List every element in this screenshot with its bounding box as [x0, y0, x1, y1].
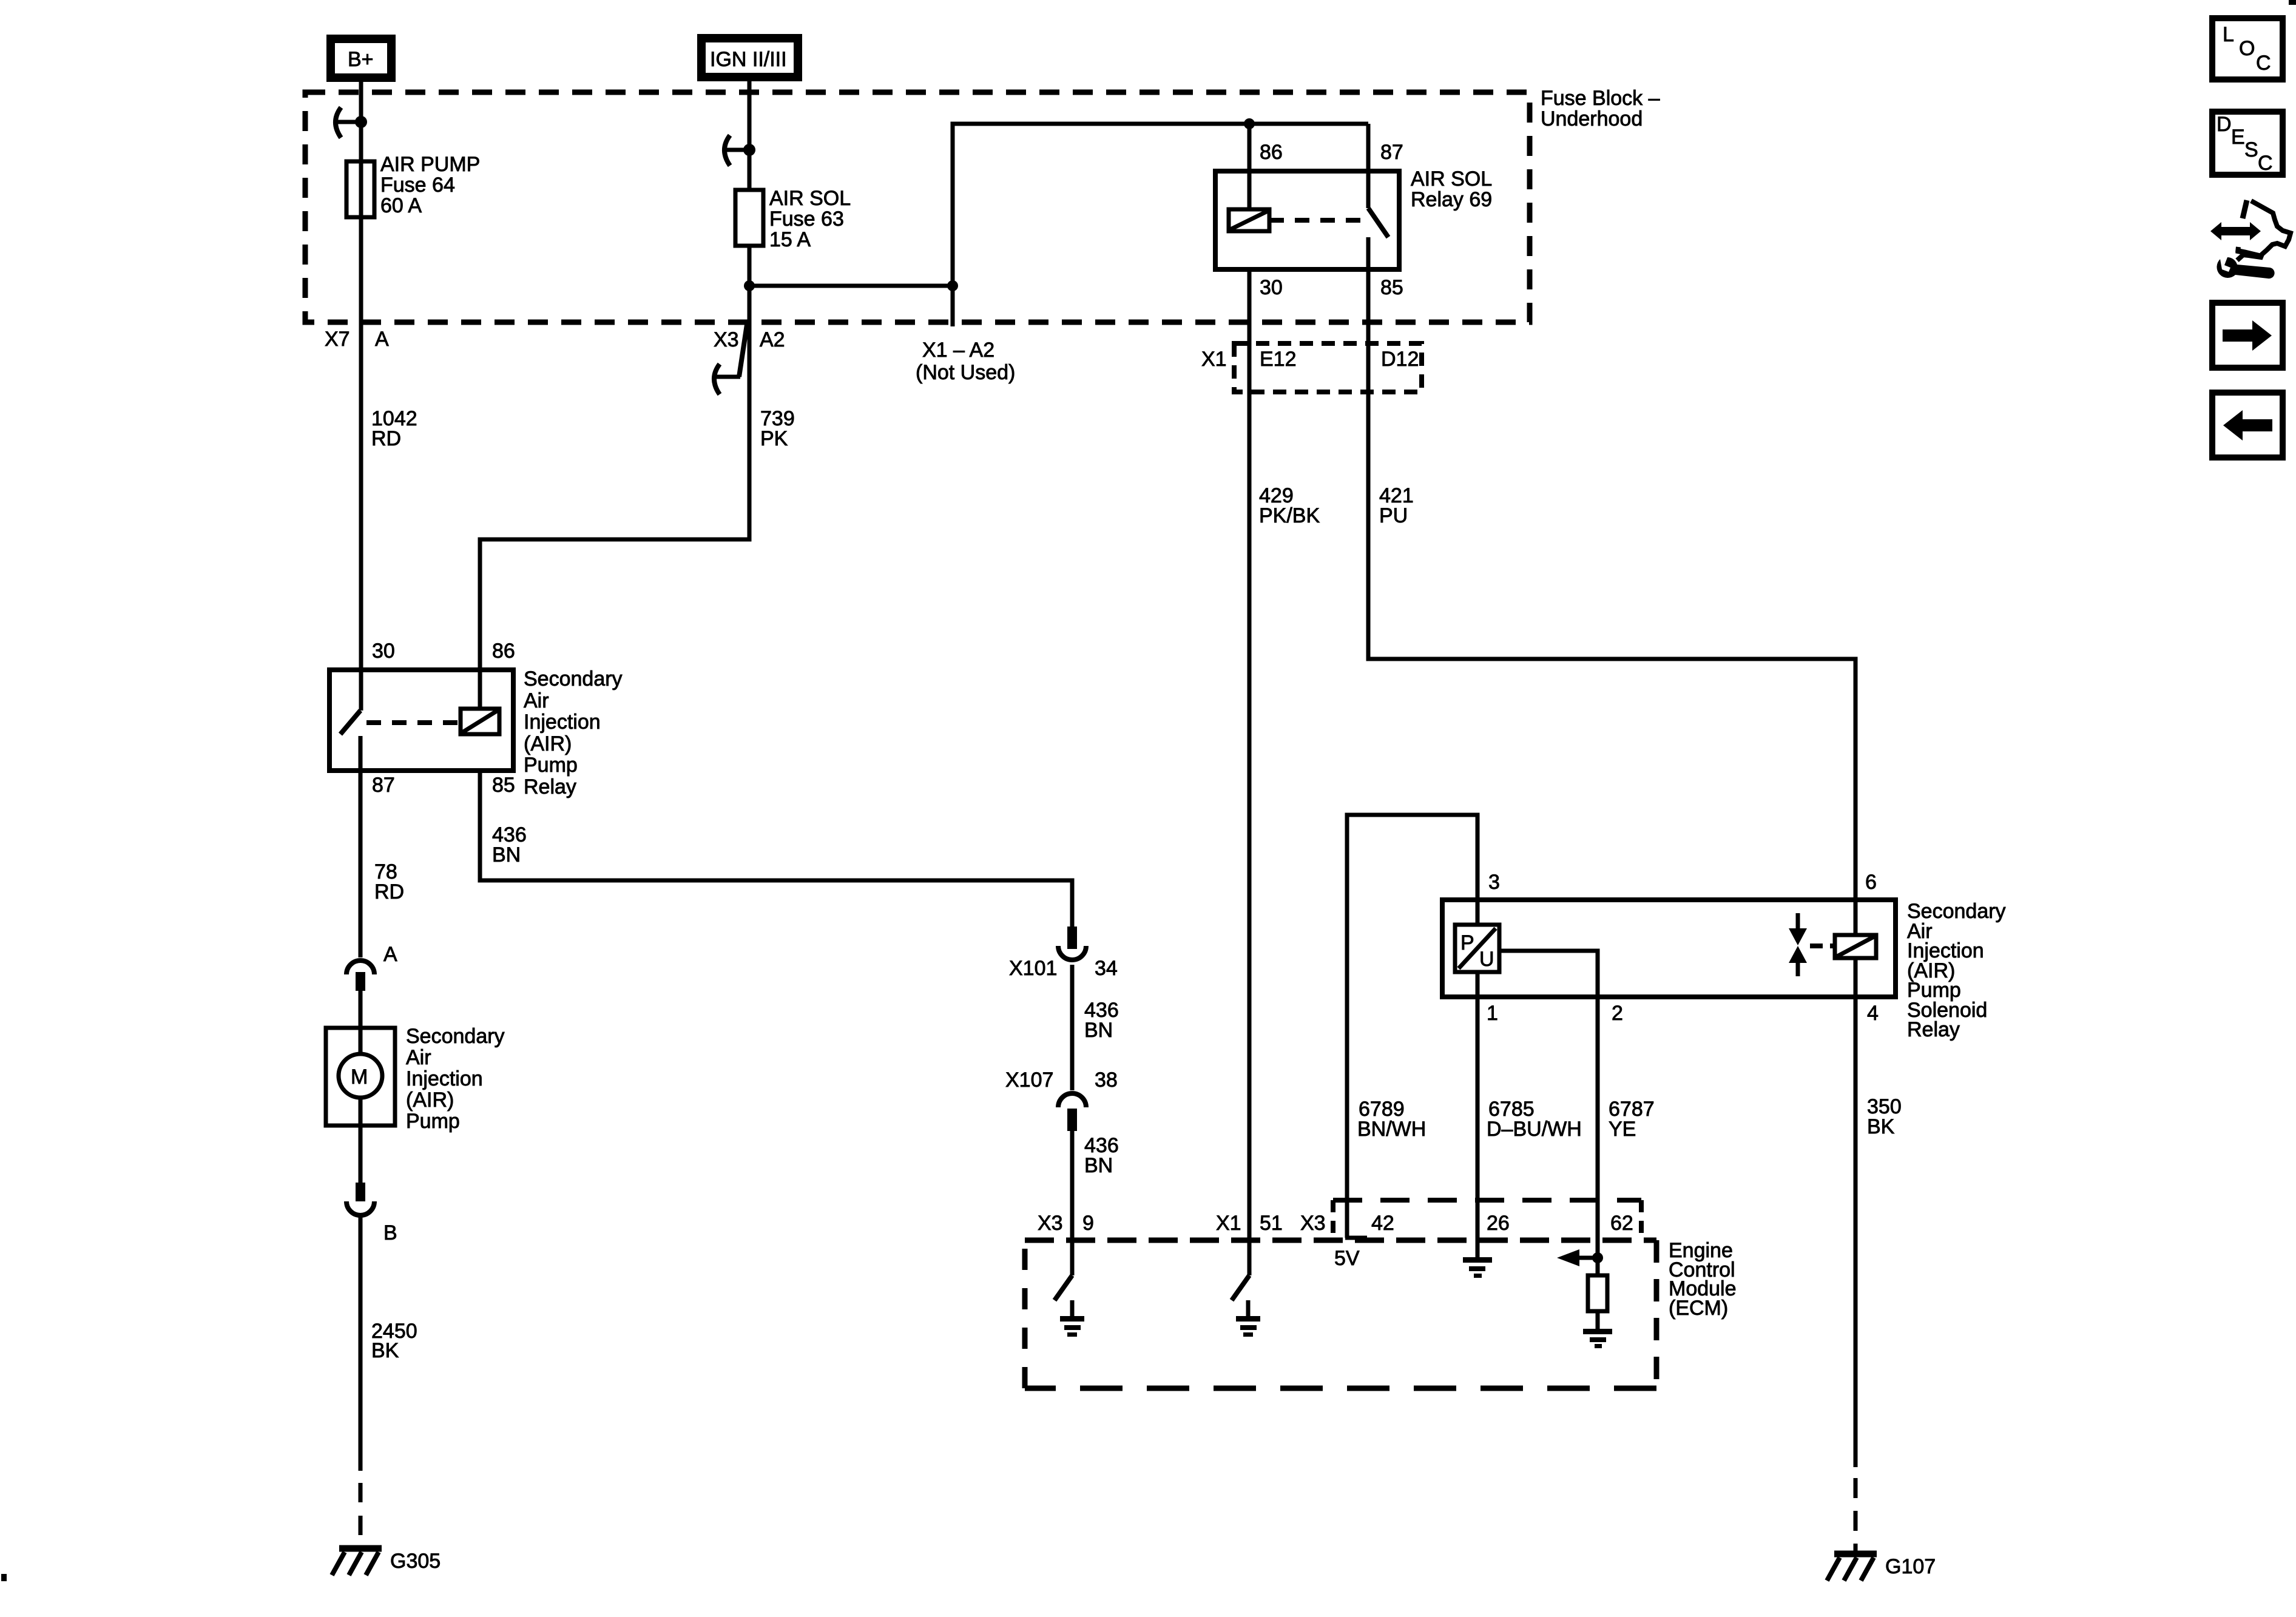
AIR pump relay coil-switch dashed link	[366, 720, 459, 725]
Fuse Block - Underhood dashed box	[305, 92, 1530, 322]
wire label 78 RD	[374, 860, 404, 903]
svg-text:IGN II/III: IGN II/III	[710, 48, 787, 71]
connector labels X3 9	[1038, 1212, 1094, 1235]
svg-text:D12: D12	[1381, 348, 1419, 371]
svg-text:PK: PK	[760, 427, 788, 450]
svg-text:PU: PU	[1379, 504, 1408, 527]
svg-text:60 A: 60 A	[380, 194, 422, 217]
svg-text:X3: X3	[1300, 1212, 1326, 1235]
wire label 6789 BN/WH	[1357, 1098, 1426, 1141]
svg-text:BK: BK	[371, 1339, 399, 1362]
wire A to motor	[359, 991, 363, 1028]
wire 436 BN X101 to X107	[1070, 965, 1075, 1090]
svg-text:Fuse 63: Fuse 63	[769, 208, 844, 231]
svg-text:(AIR): (AIR)	[406, 1089, 454, 1112]
ECM switch to ground at X1/51	[1232, 1275, 1260, 1337]
wire label 1042 RD	[371, 407, 417, 450]
wire label 421 PU	[1379, 484, 1414, 527]
svg-text:Relay: Relay	[1907, 1018, 1960, 1041]
svg-text:X1: X1	[1216, 1212, 1241, 1235]
svg-text:85: 85	[1380, 276, 1403, 299]
stub X1-A2 not used	[951, 286, 955, 326]
svg-text:L: L	[2223, 23, 2234, 46]
svg-text:B+: B+	[348, 48, 374, 71]
svg-text:YE: YE	[1609, 1118, 1636, 1141]
wire 2450 BK to G305	[359, 1217, 363, 1471]
svg-text:X107: X107	[1005, 1068, 1053, 1092]
solenoid relay pin labels 3 6 1 2 4	[1487, 871, 1879, 1025]
svg-text:X1: X1	[1201, 348, 1227, 371]
svg-text:O: O	[2239, 37, 2255, 60]
connector X1 E12 D12 dashed box	[1234, 343, 1422, 392]
fuse F63 AIR SOL Fuse 63 15 A	[735, 187, 851, 251]
svg-text:X3: X3	[1038, 1212, 1063, 1235]
wire B+ to AIR pump relay pin 30	[359, 82, 363, 711]
svg-text:(ECM): (ECM)	[1669, 1297, 1728, 1320]
svg-text:C: C	[2258, 152, 2273, 175]
svg-text:5V: 5V	[1334, 1247, 1360, 1270]
junction below fuse 63	[744, 280, 755, 291]
svg-text:B: B	[383, 1221, 397, 1244]
relay 69 pin 85 contact wire	[1366, 237, 1371, 269]
svg-text:D: D	[2217, 113, 2232, 136]
relay 69 box AIR SOL Relay 69	[1215, 171, 1399, 269]
page tick bottom left	[1, 1574, 7, 1581]
wire 78 RD relay pin 87 to pump connector A	[359, 771, 363, 957]
icon box DESC	[2212, 112, 2283, 175]
labels X1 E12 D12	[1201, 348, 1419, 371]
ECM pin labels X1 51 X3 42 26 62	[1216, 1212, 1633, 1235]
icon box back arrow	[2212, 393, 2283, 457]
wire solenoid relay pin 3 to ECM X3/42 (6789 BN/WH)	[1347, 815, 1477, 1238]
secondary air injection pump solenoid relay box	[1442, 900, 1896, 997]
ECM pull resistor at pin 62	[1588, 1275, 1607, 1329]
wire IGN to fuse 63	[748, 81, 752, 190]
svg-text:Relay: Relay	[524, 775, 576, 798]
svg-text:87: 87	[372, 774, 395, 797]
svg-text:BK: BK	[1867, 1115, 1895, 1138]
svg-text:3: 3	[1488, 871, 1500, 894]
svg-text:A: A	[375, 328, 389, 351]
ECM switch to ground at X3/9	[1055, 1275, 1084, 1337]
svg-text:9: 9	[1082, 1212, 1094, 1235]
ECM internal ground at pin 26	[1463, 1243, 1492, 1278]
wire motor to connector B	[359, 1126, 363, 1183]
svg-text:X7: X7	[325, 328, 350, 351]
label Fuse Block - Underhood	[1541, 87, 1660, 130]
svg-text:Injection: Injection	[524, 711, 601, 734]
label Secondary Air Injection (AIR) Pump	[406, 1025, 505, 1133]
svg-text:34: 34	[1095, 957, 1118, 980]
svg-text:BN: BN	[492, 843, 521, 866]
svg-text:G305: G305	[390, 1550, 441, 1573]
svg-text:15 A: 15 A	[769, 228, 811, 251]
svg-text:42: 42	[1371, 1212, 1394, 1235]
svg-text:Secondary: Secondary	[406, 1025, 505, 1048]
svg-text:M: M	[351, 1065, 368, 1089]
wire relay 69 pin 86 coil	[1248, 124, 1252, 209]
svg-text:P: P	[1460, 931, 1474, 954]
tap clip on B+ wire	[336, 107, 367, 138]
svg-text:PK/BK: PK/BK	[1259, 504, 1320, 527]
svg-text:BN: BN	[1084, 1154, 1113, 1177]
svg-text:AIR SOL: AIR SOL	[1411, 167, 1492, 191]
svg-text:RD: RD	[374, 880, 404, 903]
svg-text:6: 6	[1865, 871, 1877, 894]
label AIR SOL Relay 69	[1411, 167, 1492, 211]
svg-text:AIR SOL: AIR SOL	[769, 187, 851, 210]
power tag B+	[331, 39, 391, 78]
svg-text:Pump: Pump	[524, 754, 578, 777]
label Secondary Air Injection (AIR) Pump Relay	[524, 667, 623, 798]
svg-text:Fuse Block –: Fuse Block –	[1541, 87, 1660, 110]
svg-text:X1 – A2: X1 – A2	[922, 339, 994, 362]
label Engine Control Module (ECM)	[1669, 1239, 1737, 1320]
svg-text:G107: G107	[1885, 1555, 1936, 1578]
tap clip below X3/A2	[714, 364, 740, 394]
wire label 739 PK	[760, 407, 795, 450]
PU driver box inside solenoid relay	[1455, 900, 1499, 972]
wire label 350 BK	[1867, 1095, 1902, 1138]
wire label 429 PK/BK	[1259, 484, 1320, 527]
wire label 6785 D-BU/WH	[1487, 1098, 1582, 1141]
svg-text:X3: X3	[714, 328, 739, 351]
wire solenoid relay pin 4 down (350 BK)	[1854, 958, 1858, 1467]
svg-text:51: 51	[1260, 1212, 1283, 1235]
wire 436 BN X107 to ECM X3/9	[1070, 1131, 1075, 1275]
junction at X1-A2 stub	[947, 280, 958, 291]
svg-text:26: 26	[1487, 1212, 1510, 1235]
wire 436 BN relay pin 85 to X101	[480, 771, 1072, 927]
svg-text:86: 86	[492, 640, 515, 663]
label Secondary Air Injection (AIR) Pump Solenoid Relay	[1907, 900, 2006, 1041]
AIR pump relay pin labels 30 86 87 85	[372, 640, 515, 797]
AIR pump relay pin 30 internal wire and switch blade	[340, 711, 360, 771]
svg-text:A2: A2	[760, 328, 785, 351]
connector X107 pin 38	[1005, 1068, 1118, 1131]
svg-text:38: 38	[1095, 1068, 1118, 1092]
svg-text:Air: Air	[406, 1046, 431, 1069]
wire label 436 BN	[1084, 1134, 1119, 1177]
connector X3 pin A2 labels	[714, 328, 785, 351]
wire solenoid relay pin 1 to ECM pin 26 ground (6785 D-BU/WH)	[1476, 972, 1480, 1243]
label X1 - A2 (Not Used)	[916, 339, 1015, 384]
fuse F64 AIR PUMP Fuse 64 60 A	[346, 153, 480, 217]
svg-text:30: 30	[1260, 276, 1283, 299]
relay 69 coil-switch dashed link	[1269, 218, 1362, 223]
svg-text:BN/WH: BN/WH	[1357, 1118, 1426, 1141]
svg-text:(AIR): (AIR)	[524, 732, 572, 755]
page tick top right	[2289, 0, 2296, 5]
svg-text:Pump: Pump	[406, 1110, 460, 1133]
svg-text:BN: BN	[1084, 1019, 1113, 1042]
svg-text:S: S	[2244, 138, 2258, 161]
wire branch to X1-A2 and relay 69	[749, 124, 1368, 286]
motor M Secondary Air Injection (AIR) Pump	[326, 1028, 395, 1126]
dashed link diode to coil	[1810, 944, 1835, 948]
svg-text:E: E	[2231, 126, 2245, 149]
svg-text:(Not Used): (Not Used)	[916, 361, 1015, 384]
svg-text:Relay 69: Relay 69	[1411, 188, 1492, 211]
svg-text:RD: RD	[371, 427, 401, 450]
connector B of pump	[346, 1183, 374, 1215]
connector A of pump	[346, 960, 374, 991]
ECM dashed box Engine Control Module	[1025, 1240, 1656, 1388]
svg-text:4: 4	[1867, 1002, 1879, 1025]
icon box forward arrow	[2212, 303, 2283, 368]
wire PU box to solenoid relay pin 2 (6787 YE) to ECM pin 62	[1499, 951, 1598, 1275]
svg-text:E12: E12	[1260, 348, 1297, 371]
svg-text:30: 30	[372, 640, 395, 663]
svg-text:62: 62	[1610, 1212, 1633, 1235]
svg-text:87: 87	[1380, 141, 1403, 164]
svg-text:A: A	[383, 943, 397, 966]
solenoid relay coil	[1835, 935, 1876, 958]
wire label 436 BN	[1084, 999, 1119, 1042]
ground G305	[332, 1548, 441, 1575]
wire 739 PK from fuse 63 to AIR pump relay coil pin 86	[480, 246, 749, 709]
ECM pin connector dashed box X3 42 26 62	[1333, 1200, 1641, 1240]
wire label 6787 YE	[1609, 1098, 1655, 1141]
wire relay 69 pin 30 down (429 PK/BK) to ECM X1/51	[1248, 269, 1252, 1275]
dashed wire segment to G305	[359, 1471, 363, 1548]
svg-text:Injection: Injection	[406, 1067, 483, 1090]
svg-text:85: 85	[492, 774, 515, 797]
svg-text:2: 2	[1612, 1002, 1623, 1025]
svg-text:D–BU/WH: D–BU/WH	[1487, 1118, 1582, 1141]
svg-text:Underhood: Underhood	[1541, 107, 1643, 130]
wire label 436 BN	[492, 823, 527, 866]
AIR pump relay coil	[461, 709, 499, 734]
ECM output driver arrow at pin 62	[1557, 1249, 1603, 1266]
5V stub foot at pin 42	[1345, 1236, 1367, 1240]
AIR pump relay box	[329, 670, 513, 771]
wire into relay 69 pin 87	[1366, 124, 1371, 208]
relay 69 coil	[1229, 209, 1269, 231]
ground G107	[1827, 1554, 1936, 1581]
svg-text:X101: X101	[1009, 957, 1057, 980]
dashed wire segment to G107	[1854, 1467, 1858, 1554]
junction dot at relay 69 pin 86 branch	[1244, 118, 1255, 129]
connector pass-through jog at X3/A2	[739, 325, 747, 377]
svg-text:U: U	[1479, 948, 1494, 971]
wire label 2450 BK	[371, 1320, 417, 1362]
connector X101 pin 34	[1009, 927, 1118, 980]
relay 69 pin labels 86 87 30 85	[1260, 141, 1403, 299]
ECM internal ground below resistor	[1583, 1329, 1612, 1348]
power tag IGN II/III	[701, 38, 798, 77]
svg-text:Fuse 64: Fuse 64	[380, 174, 455, 197]
svg-text:AIR PUMP: AIR PUMP	[380, 153, 480, 176]
svg-text:1: 1	[1487, 1002, 1498, 1025]
diode suppression symbol in solenoid relay	[1789, 913, 1807, 976]
wire relay 69 pin 85 down (421 PU) to solenoid relay pin 6	[1368, 269, 1855, 935]
tap clip on IGN wire	[724, 135, 755, 166]
svg-text:Air: Air	[524, 689, 549, 712]
svg-text:86: 86	[1260, 141, 1283, 164]
icon hand with double arrow and wrench	[2210, 200, 2291, 279]
svg-text:Secondary: Secondary	[524, 667, 623, 690]
relay 69 switch blade	[1368, 208, 1388, 237]
icon box LOC	[2212, 18, 2283, 79]
connector X7 pin A labels	[325, 328, 389, 351]
svg-text:C: C	[2256, 52, 2271, 75]
